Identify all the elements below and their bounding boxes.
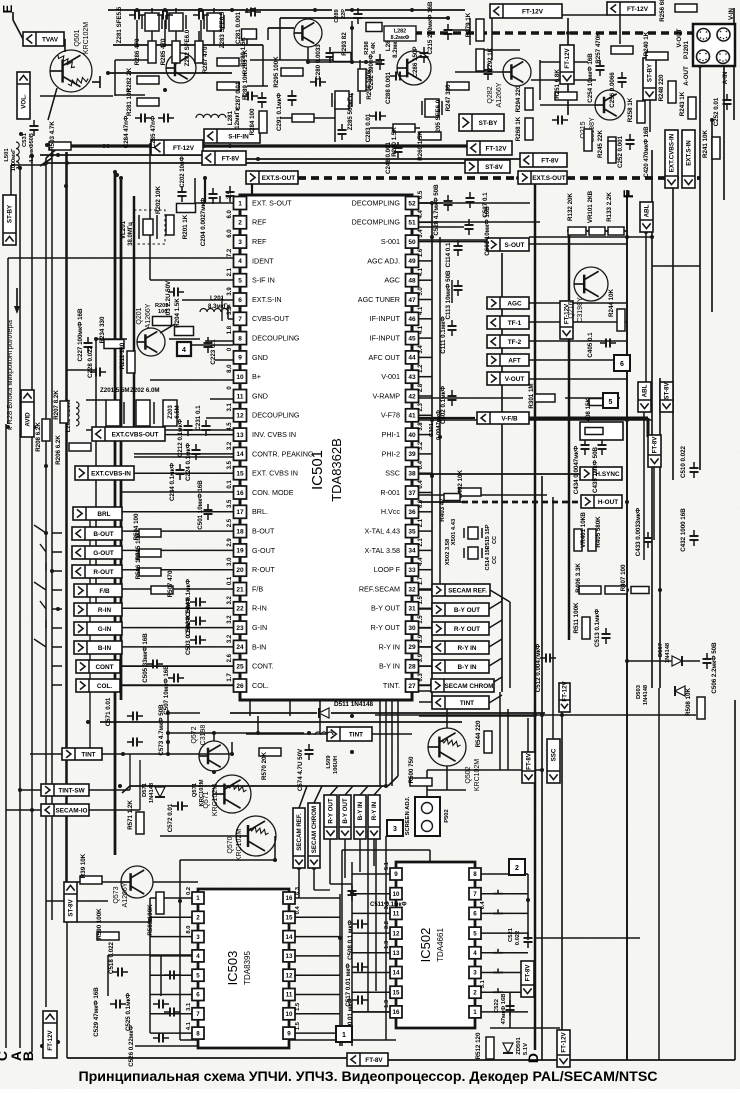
diode D511 1N4148 xyxy=(319,708,329,718)
svg-text:V-RAMP: V-RAMP xyxy=(372,391,400,400)
svg-text:6: 6 xyxy=(238,297,242,304)
svg-text:C432 1000 16В: C432 1000 16В xyxy=(680,508,687,552)
IC501 pin 30 (R-Y OUT) xyxy=(406,621,419,634)
net label ABL (vertical) xyxy=(638,382,651,412)
svg-text:KRC102M: KRC102M xyxy=(474,759,481,791)
IC501 pin 8 (DECOUPLING) xyxy=(234,332,247,345)
capacitor C113 10мкФ 50В xyxy=(454,285,463,287)
svg-text:A-IN: A-IN xyxy=(722,71,729,84)
svg-text:1.3: 1.3 xyxy=(384,999,390,1008)
wire bottom left caps rail xyxy=(108,954,198,956)
wire Q201 area xyxy=(169,338,200,340)
svg-text:4.4: 4.4 xyxy=(418,557,424,566)
wire thick q201 col xyxy=(133,196,135,430)
resistor R285 470 xyxy=(172,41,180,63)
svg-text:4.1: 4.1 xyxy=(418,325,424,334)
svg-text:ST-8V: ST-8V xyxy=(664,382,671,400)
IC501 pin 35 (X-TAL 4.43) xyxy=(406,525,419,538)
svg-text:C280 0.0033: C280 0.0033 xyxy=(315,44,322,80)
IC501 pin 13 (INV. CVBS IN) xyxy=(234,428,247,441)
svg-text:21: 21 xyxy=(236,586,244,593)
svg-text:1.3: 1.3 xyxy=(384,940,390,949)
svg-text:C505 33мкФ 16В: C505 33мкФ 16В xyxy=(142,633,149,683)
wire E to TVAV xyxy=(13,20,23,39)
svg-text:R405 580K: R405 580K xyxy=(595,516,602,548)
svg-text:0.2: 0.2 xyxy=(186,887,192,895)
net label ST-8V (vertical) xyxy=(660,382,673,412)
svg-text:C291 0.1мкФ: C291 0.1мкФ xyxy=(276,92,283,131)
svg-text:8.2мкФ: 8.2мкФ xyxy=(391,35,410,41)
junction box 4 xyxy=(177,342,191,356)
svg-text:DECOUPLING: DECOUPLING xyxy=(252,334,300,343)
svg-text:TVAV: TVAV xyxy=(42,36,59,43)
svg-text:3.1: 3.1 xyxy=(227,402,233,411)
svg-text:2.1: 2.1 xyxy=(418,518,424,527)
wire r132 row xyxy=(569,230,627,232)
net label VOL. (vertical) xyxy=(17,72,30,119)
svg-text:13: 13 xyxy=(236,432,244,439)
connector socket xyxy=(717,28,730,41)
svg-text:14: 14 xyxy=(236,451,244,458)
svg-text:SSC: SSC xyxy=(385,469,400,478)
IC503 pin 7 xyxy=(192,1008,204,1020)
svg-text:4: 4 xyxy=(182,347,186,354)
wire bottom-mid verticals xyxy=(541,476,543,1060)
svg-text:FT-8V: FT-8V xyxy=(541,157,559,164)
svg-text:5: 5 xyxy=(473,930,477,937)
svg-text:C3198: C3198 xyxy=(200,725,207,746)
svg-text:V-IN: V-IN xyxy=(728,7,735,20)
zener ZD501 5.1V xyxy=(503,1043,513,1053)
svg-text:R544 220: R544 220 xyxy=(475,720,482,747)
capacitor C111 0.1мкФ xyxy=(448,325,457,327)
svg-text:V-OUT: V-OUT xyxy=(676,28,683,47)
svg-text:R-IN: R-IN xyxy=(98,607,112,614)
wire tint links xyxy=(89,789,130,791)
svg-text:4: 4 xyxy=(238,258,242,265)
wire left bus 7 xyxy=(65,152,67,882)
svg-text:G-OUT: G-OUT xyxy=(93,550,114,557)
resistor R402 10K xyxy=(459,488,481,496)
svg-text:V-001: V-001 xyxy=(381,372,400,381)
net label R-Y OUT (vertical) xyxy=(324,795,337,839)
junction box 2 xyxy=(509,859,525,875)
svg-text:FT-12V: FT-12V xyxy=(47,1029,54,1050)
net label R-OUT xyxy=(72,565,122,578)
svg-text:6: 6 xyxy=(196,992,200,999)
svg-text:3.9: 3.9 xyxy=(227,287,233,296)
IC501 pin 14 (CONTR. PEAKING) xyxy=(234,447,247,460)
capacitor C234 0.1мкФ xyxy=(176,469,185,471)
capacitor at IC503 pin6 xyxy=(169,971,171,980)
wire top rail y18 xyxy=(280,17,448,19)
svg-text:0.4: 0.4 xyxy=(418,460,424,469)
svg-text:C301: C301 xyxy=(429,422,435,437)
wire left bus A xyxy=(19,168,21,1048)
wire h rail 716 xyxy=(230,712,317,714)
inductor L509 xyxy=(315,732,333,735)
svg-text:SECAM REF.: SECAM REF. xyxy=(296,813,303,851)
wire mid col extra xyxy=(95,430,97,610)
svg-text:R407 100: R407 100 xyxy=(620,564,627,591)
IC502 pin 14 xyxy=(390,967,402,979)
wire IC502 pins right xyxy=(481,873,528,875)
svg-text:Z285 500кГц: Z285 500кГц xyxy=(347,94,354,131)
svg-text:R-IN: R-IN xyxy=(252,604,267,613)
inductor label L282 box xyxy=(384,26,416,41)
capacitor C503 0.1мкФ xyxy=(195,636,197,645)
net label FT-12V (vertical) xyxy=(560,301,573,339)
wire q572 top xyxy=(213,733,215,741)
wire between ICs xyxy=(385,836,387,1040)
filter Z205 SFE6.0 xyxy=(425,99,439,117)
svg-text:L281: L281 xyxy=(227,110,234,125)
wire secam tag drops xyxy=(298,868,300,898)
net label S-IF-IN xyxy=(204,129,260,143)
svg-text:L201: L201 xyxy=(210,295,225,302)
wire top pins up xyxy=(232,202,234,204)
resistor R? xyxy=(631,587,649,594)
resistor R208 6.2K xyxy=(42,419,50,441)
capacitor C501 10мкФ 16В xyxy=(204,509,213,511)
wire bottom trio xyxy=(274,836,276,860)
svg-text:3.8: 3.8 xyxy=(418,422,424,431)
resistor R511 100K xyxy=(582,617,590,639)
svg-text:D503: D503 xyxy=(636,684,642,699)
svg-text:S-IF IN: S-IF IN xyxy=(252,276,275,285)
wire q570 base xyxy=(160,835,236,837)
IC502 pin 12 xyxy=(390,927,402,939)
capacitor near pin1 xyxy=(226,191,235,193)
filter Z283 SFE6.5 xyxy=(207,13,221,31)
capacitor C248 0.001 xyxy=(394,147,403,149)
svg-text:FT-8V: FT-8V xyxy=(222,155,240,162)
wire st-by feed xyxy=(11,164,46,166)
wire left bus C xyxy=(5,424,7,1048)
resistor R506 100 xyxy=(139,568,161,576)
svg-text:15: 15 xyxy=(286,915,293,922)
resistor R290 1.5K xyxy=(393,124,415,132)
svg-text:C571 0.01: C571 0.01 xyxy=(105,697,112,726)
transistor Q215 C3198Y xyxy=(595,90,625,120)
svg-text:C518 0.022: C518 0.022 xyxy=(108,941,115,974)
svg-text:FT-12V: FT-12V xyxy=(173,145,195,152)
wire q201 links xyxy=(160,324,175,333)
svg-text:VR101 2КВ: VR101 2КВ xyxy=(587,190,594,223)
IC502 pin 1 xyxy=(469,1006,481,1018)
crystal X501 4.43 xyxy=(468,527,478,539)
wire IC503 pins right xyxy=(295,897,340,899)
resistor R284 100 xyxy=(259,111,267,133)
resistor R280 1.5K xyxy=(242,29,257,39)
resonator Z201 5.5M xyxy=(106,400,120,426)
svg-text:10: 10 xyxy=(236,374,244,381)
svg-text:C285 47nФ: C285 47nФ xyxy=(150,115,157,148)
svg-text:TINT.: TINT. xyxy=(383,681,400,690)
connector socket xyxy=(697,29,710,42)
capacitor C302 0.1мкФ xyxy=(448,395,457,397)
svg-text:9: 9 xyxy=(238,355,242,362)
svg-text:AGC TUNER: AGC TUNER xyxy=(358,295,400,304)
IC501 pin 39 (PHI-2) xyxy=(406,447,419,460)
net label SSC (vertical) xyxy=(547,739,560,783)
net label ST-BY (vertical) xyxy=(3,195,16,245)
svg-text:C227 100мкФ 16В: C227 100мкФ 16В xyxy=(77,308,84,361)
svg-text:C572 0.01: C572 0.01 xyxy=(167,803,174,832)
svg-text:3.4: 3.4 xyxy=(418,229,424,238)
svg-text:C574 4.7U 50V: C574 4.7U 50V xyxy=(297,748,304,791)
wire H rows lower right xyxy=(419,715,535,717)
capacitor C510 0.022 xyxy=(690,467,699,469)
svg-text:8: 8 xyxy=(238,335,242,342)
svg-text:A-OUT: A-OUT xyxy=(683,66,690,86)
svg-text:R258 1K: R258 1K xyxy=(627,97,634,122)
svg-text:29: 29 xyxy=(408,644,416,651)
svg-text:2: 2 xyxy=(515,865,519,872)
net label FT-12V xyxy=(467,141,512,155)
svg-text:1.5: 1.5 xyxy=(295,1002,301,1011)
svg-text:BRL: BRL xyxy=(97,511,110,518)
resistor extra3 xyxy=(292,114,314,122)
svg-text:C420 470мкФ 16В: C420 470мкФ 16В xyxy=(644,126,650,178)
svg-text:EXT.S-IN: EXT.S-IN xyxy=(252,295,282,304)
svg-text:Z201 5.5M: Z201 5.5M xyxy=(100,387,130,394)
svg-text:R208 6.2K: R208 6.2K xyxy=(35,422,42,452)
IC501 pin 33 (LOOP F) xyxy=(406,563,419,576)
svg-text:SECAM REF.: SECAM REF. xyxy=(448,587,487,594)
wire pin1 row xyxy=(195,202,233,204)
svg-text:R248 220: R248 220 xyxy=(658,74,665,101)
svg-text:14: 14 xyxy=(286,934,293,941)
svg-text:R285 470: R285 470 xyxy=(160,38,167,65)
svg-text:1N4148: 1N4148 xyxy=(643,684,649,705)
IC501 pin 22 (R-IN) xyxy=(234,602,247,615)
wire top bus FT-12V rail xyxy=(66,144,151,147)
svg-text:EXT.CVBS-IN: EXT.CVBS-IN xyxy=(91,470,131,477)
svg-text:B+: B+ xyxy=(252,372,261,381)
wire filter drops xyxy=(136,20,138,47)
wire left diag to boxes xyxy=(34,525,46,533)
ground symbols IC502 xyxy=(497,890,499,894)
svg-text:COL.: COL. xyxy=(252,681,269,690)
svg-text:CON. MODE: CON. MODE xyxy=(252,488,294,497)
net label H-OUT xyxy=(581,495,622,508)
svg-text:ABL: ABL xyxy=(642,384,649,397)
IC501 pin 3 (REF) xyxy=(234,235,247,248)
svg-text:11: 11 xyxy=(237,393,244,400)
resistor R281 10K xyxy=(137,98,159,106)
svg-text:TDA8395: TDA8395 xyxy=(243,951,252,985)
resistor R571 1.2K xyxy=(136,812,144,834)
inductor L201 xyxy=(200,309,228,313)
pot P502 screen adj xyxy=(415,797,440,836)
svg-text:LOOP F: LOOP F xyxy=(374,565,401,574)
resistor R206 6.2K xyxy=(69,443,91,451)
svg-text:5.1: 5.1 xyxy=(384,861,390,870)
svg-text:C3198Y: C3198Y xyxy=(577,297,584,323)
svg-text:R279 1K: R279 1K xyxy=(465,12,472,37)
svg-text:TINT: TINT xyxy=(349,731,363,738)
svg-text:C521: C521 xyxy=(508,927,514,942)
capacitor extra3 xyxy=(557,116,559,125)
svg-text:8.0: 8.0 xyxy=(186,926,192,934)
capacitor C573 4.7мкФ 50В xyxy=(132,738,134,747)
capacitor C405 0.1 xyxy=(605,339,607,348)
capacitor C280 0.0033 xyxy=(326,52,335,54)
svg-text:1.7: 1.7 xyxy=(418,576,424,585)
IC501 pin 4 (IDENT) xyxy=(234,254,247,267)
svg-text:GND: GND xyxy=(252,391,268,400)
svg-text:1: 1 xyxy=(342,1032,346,1039)
svg-text:C528 4.7мкФ 50В: C528 4.7мкФ 50В xyxy=(433,184,440,236)
IC501 pin 11 (GND) xyxy=(234,390,247,403)
net label B-Y IN xyxy=(432,660,489,673)
svg-text:8.0: 8.0 xyxy=(418,499,424,508)
capacitor C281 0.001 xyxy=(250,8,252,17)
wire top extra xyxy=(250,59,335,61)
net label AVID (vertical) xyxy=(21,390,34,437)
svg-text:TF-2: TF-2 xyxy=(508,339,522,346)
wire tint caps rail xyxy=(168,732,304,734)
IC501 pin 12 (DECOUPLING) xyxy=(234,409,247,422)
svg-text:1N4148: 1N4148 xyxy=(149,782,155,803)
capacitor extra2 xyxy=(338,129,347,131)
wire q2 row62 xyxy=(308,61,382,63)
svg-text:1.5: 1.5 xyxy=(295,1021,301,1030)
resistor R283 1K xyxy=(217,58,239,66)
resistor R207 8.2K xyxy=(60,401,68,423)
svg-text:R286 470: R286 470 xyxy=(134,38,141,65)
capacitor C224 0.1мкФ xyxy=(192,449,201,451)
IC501 pin 18 (B-OUT) xyxy=(234,525,247,538)
resistor R570 20K xyxy=(259,748,281,756)
wire q215 links xyxy=(540,104,595,106)
net label EXT.CVBS-OUT xyxy=(92,427,165,441)
svg-text:PHI-2: PHI-2 xyxy=(382,449,400,458)
svg-text:IC502: IC502 xyxy=(418,928,433,963)
IC501 pin 34 (X-TAL 3.58) xyxy=(406,544,419,557)
svg-text:ST-BY: ST-BY xyxy=(7,204,14,223)
capacitor C513 0.1мкФ xyxy=(602,633,611,635)
svg-text:P502: P502 xyxy=(444,809,450,823)
svg-text:R-Y IN: R-Y IN xyxy=(371,801,378,820)
net label BRL xyxy=(73,507,122,520)
resistor R132 20K xyxy=(568,227,586,235)
svg-text:C114 0.1: C114 0.1 xyxy=(445,242,452,267)
svg-text:R-Y OUT: R-Y OUT xyxy=(454,626,480,633)
wire d rows xyxy=(419,690,460,692)
IC502 pin 15 xyxy=(390,986,402,998)
svg-text:R512 120: R512 120 xyxy=(475,1032,482,1059)
svg-text:8: 8 xyxy=(473,871,477,878)
IC503 pin 16 xyxy=(283,892,295,904)
net label FT-8V (vertical) xyxy=(522,752,535,783)
resistor R240 1K xyxy=(646,52,668,60)
transistor Q282 A1266Y xyxy=(503,58,531,86)
net label FT-8V (vertical) xyxy=(648,435,661,467)
wire right verticals xyxy=(651,150,653,688)
IC501 pin 40 (PHI-1) xyxy=(406,428,419,441)
wire diag rail above secam tags xyxy=(130,785,388,787)
wire v 568 xyxy=(567,18,569,115)
resistor R504 100 xyxy=(139,529,161,537)
svg-text:IF-INPUT: IF-INPUT xyxy=(370,334,401,343)
svg-text:L501: L501 xyxy=(4,148,10,162)
svg-text:1.8: 1.8 xyxy=(227,325,233,334)
svg-text:3.1: 3.1 xyxy=(384,901,390,910)
svg-text:1: 1 xyxy=(196,895,200,902)
wire q2 base xyxy=(268,27,294,29)
svg-text:D507: D507 xyxy=(658,643,664,657)
svg-text:6: 6 xyxy=(473,911,477,918)
svg-text:X501 4.43: X501 4.43 xyxy=(451,518,457,545)
transistor Q501 KRC102M xyxy=(50,50,92,92)
IC501 pin 32 (REF.SECAM) xyxy=(406,583,419,596)
svg-text:7: 7 xyxy=(238,316,242,323)
svg-text:16: 16 xyxy=(393,1009,400,1016)
filter Z282 SFE6.0 xyxy=(169,13,183,31)
svg-text:2.9: 2.9 xyxy=(227,538,233,547)
wire bottom right links xyxy=(658,688,660,1060)
capacitor C202 body xyxy=(178,191,187,193)
svg-text:R206 6.2K: R206 6.2K xyxy=(55,435,62,465)
svg-text:3.2: 3.2 xyxy=(227,441,233,450)
capacitor C231 0.1 xyxy=(202,425,211,427)
wire ssc row xyxy=(419,494,547,496)
svg-text:6.5M: 6.5M xyxy=(175,405,181,418)
svg-text:Q571: Q571 xyxy=(192,782,198,797)
capacitor C527 0.1 xyxy=(466,197,475,199)
resistor R406 3.3K xyxy=(579,586,601,594)
svg-text:ABL: ABL xyxy=(644,204,651,217)
IC502 pin 13 xyxy=(390,947,402,959)
net label SECAM CHROM (vertical) xyxy=(308,803,320,868)
capacitor C435 1мкФ 50В xyxy=(598,444,607,446)
svg-text:R251 6.8K: R251 6.8K xyxy=(554,69,561,99)
capacitor C286 150P xyxy=(420,52,429,54)
capacitor C267 0.01 xyxy=(258,97,267,99)
IC501 pin 42 (V-RAMP) xyxy=(406,390,419,403)
svg-text:C529 47мкФ 16В: C529 47мкФ 16В xyxy=(93,987,100,1037)
IC502 pin 9 xyxy=(390,868,402,880)
svg-text:C288 0.001: C288 0.001 xyxy=(385,71,392,104)
svg-text:C601 10мкФ 16В: C601 10мкФ 16В xyxy=(484,206,491,256)
svg-text:INV. CVBS IN: INV. CVBS IN xyxy=(252,430,296,439)
svg-text:R39 10K: R39 10K xyxy=(80,853,87,878)
svg-text:G-OUT: G-OUT xyxy=(252,546,276,555)
net label B-OUT xyxy=(72,527,122,540)
svg-text:2.1: 2.1 xyxy=(418,538,424,547)
svg-text:1.5: 1.5 xyxy=(418,615,424,624)
capacitor at IC503 pin8 xyxy=(169,1008,171,1017)
wire pin2627 out xyxy=(120,684,233,686)
svg-text:3.1: 3.1 xyxy=(186,1002,192,1011)
svg-text:DECOUPLING: DECOUPLING xyxy=(252,411,300,420)
svg-text:B-IN: B-IN xyxy=(98,645,112,652)
net label ST-BY xyxy=(459,114,504,131)
junction box 3 xyxy=(387,820,403,836)
svg-text:AGC ADJ.: AGC ADJ. xyxy=(367,256,400,265)
svg-text:4: 4 xyxy=(196,953,200,960)
wire right-mid links xyxy=(529,236,652,238)
IC501 pin 2 (REF) xyxy=(234,216,247,229)
capacitor C252 0.01 xyxy=(723,99,732,101)
svg-text:EXT.CVBS-IN: EXT.CVBS-IN xyxy=(669,133,676,172)
svg-text:51: 51 xyxy=(408,220,416,227)
svg-text:D511 1N4148: D511 1N4148 xyxy=(334,701,374,708)
junction box 1 xyxy=(336,1026,352,1042)
svg-text:VOL.: VOL. xyxy=(21,94,28,109)
